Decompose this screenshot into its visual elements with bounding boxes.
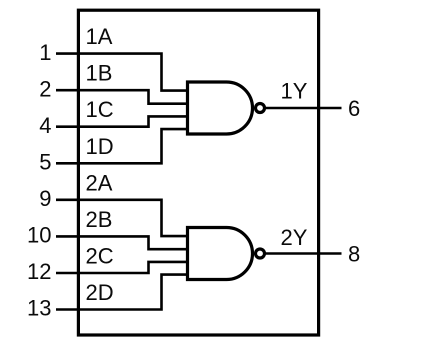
wire pin10 to gate U2 input B <box>56 236 189 249</box>
svg-text:2C: 2C <box>86 244 114 269</box>
svg-text:2: 2 <box>39 76 51 101</box>
svg-text:9: 9 <box>39 186 51 211</box>
wire pin9 to gate U2 input A <box>56 200 189 236</box>
IC outline box <box>78 10 318 335</box>
svg-text:13: 13 <box>27 296 51 321</box>
svg-text:5: 5 <box>39 150 51 175</box>
svg-text:8: 8 <box>348 242 360 267</box>
wire pin5 to gate U1 input D <box>56 129 189 163</box>
svg-text:2B: 2B <box>86 207 113 232</box>
wire pin1 to gate U1 input A <box>56 54 189 91</box>
wire pin2 to gate U1 input B <box>56 90 189 104</box>
wire pin4 to gate U1 input C <box>56 116 189 126</box>
wire gate U1 output to pin 6 <box>265 107 342 110</box>
svg-text:6: 6 <box>348 96 360 121</box>
svg-text:10: 10 <box>27 223 51 248</box>
NAND gate U1 body <box>188 82 253 134</box>
wire gate U2 output to pin 8 <box>265 252 342 255</box>
inversion bubble U2 <box>256 249 265 258</box>
inversion bubble U1 <box>256 104 265 113</box>
wire pin13 to gate U2 input D <box>56 275 189 310</box>
svg-text:1B: 1B <box>86 61 113 86</box>
svg-text:2D: 2D <box>86 280 114 305</box>
svg-text:4: 4 <box>39 113 51 138</box>
wire pin12 to gate U2 input C <box>56 262 189 273</box>
svg-text:1C: 1C <box>86 97 114 122</box>
svg-text:1D: 1D <box>86 134 114 159</box>
svg-text:2Y: 2Y <box>281 225 308 250</box>
svg-text:1: 1 <box>39 40 51 65</box>
NAND gate U2 body <box>188 228 253 280</box>
svg-text:1Y: 1Y <box>281 79 308 104</box>
svg-text:12: 12 <box>27 259 51 284</box>
svg-text:1A: 1A <box>86 24 113 49</box>
svg-text:2A: 2A <box>86 170 113 195</box>
